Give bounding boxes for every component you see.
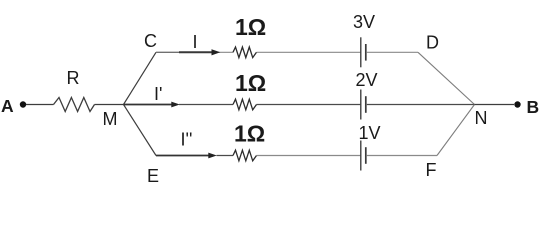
resistor 1ohm bottom bbox=[233, 150, 257, 161]
wire R to node M bbox=[95, 104, 124, 106]
svg-text:I: I bbox=[193, 32, 198, 52]
wire C to top resistor bbox=[156, 51, 233, 53]
wire D to N diagonal bbox=[418, 52, 475, 104]
wire top resistor to battery 3V bbox=[257, 51, 361, 53]
wire E to bottom resistor with current arrow I'' bbox=[156, 155, 210, 157]
resistor 1ohm middle bbox=[233, 99, 257, 110]
resistor 1ohm top bbox=[233, 47, 257, 58]
battery 3V short plate bbox=[365, 44, 367, 61]
svg-text:N: N bbox=[475, 108, 488, 128]
svg-text:E: E bbox=[147, 166, 159, 186]
wire M to E diagonal bbox=[124, 105, 157, 156]
terminal B bbox=[514, 101, 520, 107]
wire battery 2V to N bbox=[367, 104, 475, 106]
battery 1V short plate bbox=[365, 147, 367, 164]
battery 2V long plate bbox=[360, 90, 362, 120]
current arrow I bbox=[179, 51, 213, 53]
svg-text:D: D bbox=[426, 33, 439, 53]
svg-text:M: M bbox=[103, 109, 118, 129]
wire N to B bbox=[475, 104, 515, 106]
wire arrow to bottom resistor bbox=[217, 155, 234, 157]
wire M to middle resistor with current arrow I' bbox=[124, 104, 174, 106]
wire battery 3V to D bbox=[367, 51, 418, 53]
wire M to C diagonal bbox=[124, 52, 157, 104]
wire bottom resistor to battery 1V bbox=[257, 155, 361, 157]
battery 2V short plate bbox=[365, 96, 367, 113]
svg-text:R: R bbox=[67, 68, 80, 88]
wire battery 1V to F bbox=[367, 155, 437, 157]
svg-text:A: A bbox=[1, 96, 14, 116]
svg-text:C: C bbox=[144, 31, 157, 51]
svg-text:1Ω: 1Ω bbox=[235, 70, 266, 96]
svg-text:1V: 1V bbox=[359, 123, 381, 143]
svg-text:I'': I'' bbox=[181, 130, 193, 150]
svg-text:3V: 3V bbox=[353, 12, 375, 32]
svg-text:B: B bbox=[527, 97, 540, 117]
wire F to N diagonal bbox=[437, 105, 475, 156]
terminal A bbox=[20, 101, 26, 107]
resistor R bbox=[54, 98, 95, 112]
svg-text:F: F bbox=[426, 160, 437, 180]
svg-text:1Ω: 1Ω bbox=[234, 121, 265, 147]
wire C to arrow (darker) bbox=[156, 51, 180, 53]
battery 3V long plate bbox=[360, 37, 362, 67]
wire middle resistor to battery 2V bbox=[257, 104, 361, 106]
svg-text:2V: 2V bbox=[356, 70, 378, 90]
wire arrow to middle resistor bbox=[179, 104, 233, 106]
wire A to resistor R bbox=[26, 104, 54, 106]
svg-text:1Ω: 1Ω bbox=[235, 14, 266, 40]
battery 1V long plate bbox=[360, 141, 362, 171]
svg-text:I': I' bbox=[154, 84, 162, 104]
